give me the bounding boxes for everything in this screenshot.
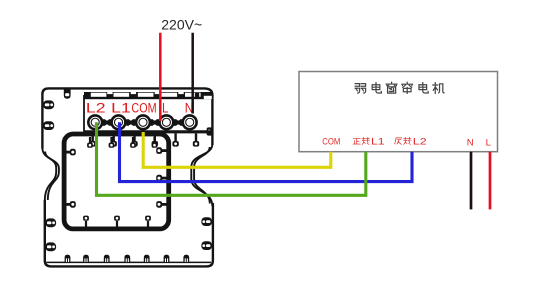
motor box [299, 72, 498, 152]
正转 glyphs [353, 137, 411, 144]
svg-text:COM: COM [131, 100, 156, 116]
terminal block bottom band [84, 130, 211, 133]
inner frame bottom pins [83, 216, 151, 228]
帘 [402, 82, 413, 93]
lower plate bottom pins [65, 255, 190, 263]
right waist S-curve [191, 144, 212, 206]
inner thick frame rect [64, 134, 169, 229]
lower plate right handle 1 [201, 217, 212, 226]
switch right clip small [195, 93, 199, 97]
terminal screw L [158, 114, 174, 130]
black N wire [470, 152, 473, 210]
弱 [355, 84, 365, 94]
green wire L2 [97, 122, 366, 195]
terminal screw COM [135, 114, 151, 130]
terminal block left edge [83, 95, 85, 132]
svg-text:L: L [162, 100, 169, 116]
black power wire [191, 33, 194, 114]
svg-text:N: N [467, 137, 474, 148]
inner frame left pin [67, 149, 76, 156]
terminal screw L1 [110, 114, 126, 130]
电 [372, 83, 381, 93]
inner frame right pins [156, 147, 166, 181]
left waist S-curve [42, 148, 59, 201]
switch right screw slot [207, 127, 213, 135]
lower plate outline [45, 200, 213, 266]
svg-text:COM: COM [322, 137, 340, 148]
motor terminal labels [322, 137, 491, 149]
inner frame side clips [67, 201, 76, 208]
red L wire [489, 152, 492, 210]
yellow wire COM [143, 132, 331, 167]
机 [433, 83, 444, 94]
inner frame top pins [87, 137, 157, 148]
svg-text:L1: L1 [371, 137, 385, 148]
switch upper plate outline [42, 88, 212, 148]
svg-text:L: L [486, 137, 491, 148]
svg-text:L2: L2 [413, 137, 427, 148]
terminal labels L2 L1 COM L N [86, 100, 194, 116]
terminal screw N [182, 114, 198, 130]
motor box title 弱电窗帘电机 (stroke glyphs) [355, 82, 444, 93]
svg-text:220V~: 220V~ [161, 16, 202, 32]
lower plate inner bottom line [47, 261, 212, 263]
电 [419, 83, 428, 93]
pins below terminal block [90, 133, 200, 146]
svg-text:L1: L1 [111, 100, 131, 116]
svg-text:L2: L2 [86, 100, 106, 116]
blue wire L1 [120, 122, 413, 181]
red power wire [159, 33, 162, 121]
反转 glyphs [395, 138, 402, 144]
terminal screw L2 [87, 114, 103, 130]
窗 [386, 82, 397, 93]
terminal block slot band [84, 92, 212, 99]
lower plate left handle 2 [45, 242, 56, 251]
terminal connectors between screws [103, 119, 183, 126]
switch left screw slot 2 [43, 121, 54, 130]
switch left screw slot 1 [43, 100, 54, 109]
lower plate right handle 2 [201, 241, 212, 250]
lower plate left handle 1 [45, 218, 56, 227]
switch top-left hanging tab [64, 89, 71, 99]
